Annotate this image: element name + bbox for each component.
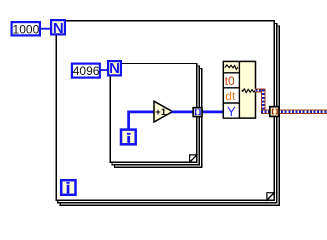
- outer loop shadow line 2: [60, 26, 279, 205]
- inner loop shadow line 1: [112, 66, 199, 165]
- wire 4096 to N: [100, 69, 109, 71]
- svg-text:4096: 4096: [73, 64, 100, 78]
- inner loop count terminal N: [108, 60, 121, 77]
- outer loop iteration terminal i: [61, 180, 75, 195]
- svg-text:N: N: [109, 60, 120, 77]
- increment function +1: [154, 101, 173, 122]
- waveform wire: segment into outer tunnel: [261, 110, 272, 115]
- outer loop corner fold: [267, 193, 274, 200]
- waveform wire: node output horizontal segment: [255, 89, 265, 93]
- inner loop corner fold: [190, 155, 197, 162]
- svg-text:+1: +1: [155, 107, 167, 118]
- wire: increment output to inner tunnel: [172, 111, 195, 114]
- Build Waveform node U1 body: [223, 61, 255, 118]
- outer loop auto-index tunnel []: [270, 107, 279, 117]
- svg-text:1000: 1000: [13, 22, 40, 36]
- svg-text:dt: dt: [225, 89, 236, 103]
- svg-text:N: N: [53, 20, 64, 37]
- inner for loop frame (main rect): [110, 64, 196, 163]
- outer loop shadow line 1: [58, 24, 277, 203]
- inner loop iteration terminal i: [121, 130, 136, 145]
- Build Waveform icon cell squiggle: [225, 65, 238, 69]
- wire 1000 to N: [40, 28, 51, 30]
- Build Waveform output squiggle: [243, 89, 256, 93]
- outer loop count terminal N: [51, 20, 65, 37]
- wire: inner i terminal to increment input: [129, 112, 155, 130]
- wire: inner tunnel to Build Waveform Y input: [201, 111, 225, 114]
- numeric constant 1000: [12, 22, 40, 36]
- numeric constant 4096: [72, 64, 100, 78]
- outer for loop frame (main rect): [56, 21, 274, 200]
- inner loop auto-index tunnel []: [193, 108, 202, 117]
- waveform wire: vertical segment down: [261, 89, 266, 115]
- waveform wire: exit wire to right edge: [278, 109, 327, 114]
- svg-text:Y: Y: [227, 104, 236, 119]
- inner loop shadow line 2: [115, 69, 202, 168]
- svg-text:t0: t0: [225, 74, 235, 88]
